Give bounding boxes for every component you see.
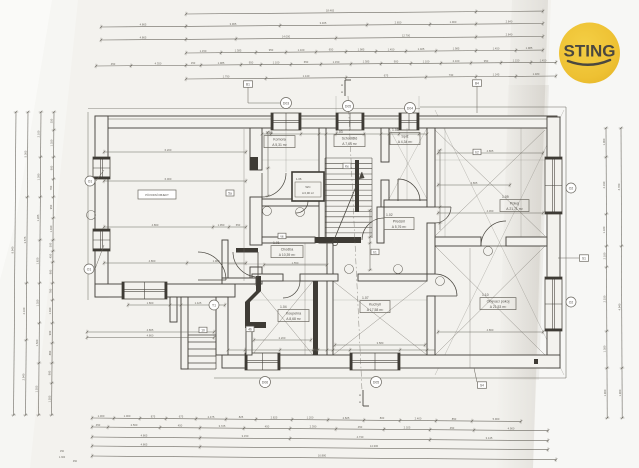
tag b2 pokoj bbox=[473, 149, 481, 155]
svg-text:A 21,53 m²: A 21,53 m² bbox=[490, 305, 507, 309]
svg-text:D06: D06 bbox=[262, 381, 268, 385]
roof outline right of plan bbox=[565, 107, 567, 378]
wall V3 lower bbox=[377, 207, 384, 243]
right dimension line 2 bbox=[621, 128, 622, 418]
svg-text:1.030: 1.030 bbox=[49, 225, 53, 232]
svg-text:450: 450 bbox=[73, 460, 78, 463]
bottom marker circle D06 bbox=[260, 377, 271, 388]
roof outline above top wall bbox=[88, 108, 420, 110]
svg-text:A: A bbox=[341, 90, 343, 94]
fold shadow band mid bbox=[498, 85, 549, 380]
svg-text:2.025: 2.025 bbox=[404, 425, 411, 429]
svg-text:A 21,71 m²: A 21,71 m² bbox=[506, 207, 523, 211]
wall V4 upper bbox=[427, 128, 435, 207]
svg-text:900: 900 bbox=[48, 330, 52, 335]
svg-text:450: 450 bbox=[358, 425, 363, 429]
svg-text:2.940: 2.940 bbox=[22, 373, 26, 380]
diagonal spiz bbox=[389, 128, 427, 199]
interior ticks under top wall bbox=[262, 133, 427, 135]
vestibule south wall bbox=[222, 278, 256, 284]
svg-text:D05: D05 bbox=[345, 105, 351, 109]
svg-text:2.840: 2.840 bbox=[506, 20, 513, 24]
svg-text:4.865: 4.865 bbox=[147, 328, 154, 332]
svg-text:1.380: 1.380 bbox=[603, 345, 607, 352]
interior dim big room line 4 bbox=[104, 262, 246, 264]
wall V4 lower bbox=[427, 296, 435, 355]
svg-text:2.400: 2.400 bbox=[415, 417, 422, 421]
paper top-left white corner bbox=[0, 0, 52, 280]
vertical line through obyvaci bbox=[469, 248, 471, 368]
interior dim obyvaci bbox=[438, 331, 543, 333]
svg-text:A 8,68 m²: A 8,68 m² bbox=[286, 317, 301, 321]
svg-text:3.580: 3.580 bbox=[377, 341, 384, 345]
entrance door bbox=[233, 252, 258, 277]
window main bottom wall 2 bbox=[350, 353, 400, 370]
svg-text:2.200: 2.200 bbox=[279, 336, 286, 340]
top marker circle D03 bbox=[281, 98, 292, 109]
svg-text:900: 900 bbox=[49, 165, 53, 170]
svg-text:760: 760 bbox=[48, 288, 52, 293]
svg-text:S4: S4 bbox=[480, 384, 484, 388]
bottom tag box S4 bbox=[478, 382, 487, 389]
top tag box B4 bbox=[473, 80, 482, 87]
wall V3 stairs/spiz bbox=[381, 128, 389, 162]
interior dim chodba bbox=[264, 264, 327, 266]
door pokoj (V4) bbox=[435, 207, 451, 223]
svg-text:150: 150 bbox=[60, 450, 65, 453]
porch wall A bbox=[170, 297, 177, 322]
wall H2 stub bbox=[381, 237, 384, 243]
interior vertical dim komora bbox=[267, 132, 269, 196]
svg-text:1.300: 1.300 bbox=[98, 414, 105, 418]
diagonal pokoj bbox=[435, 130, 545, 236]
svg-text:1.245: 1.245 bbox=[493, 72, 500, 76]
interior dim kuchyn bbox=[335, 344, 425, 346]
top marker circle D04 bbox=[405, 103, 416, 114]
svg-text:STING: STING bbox=[564, 42, 616, 61]
diagonal obyvaci pokoj bbox=[435, 246, 545, 355]
svg-text:B1: B1 bbox=[246, 83, 250, 87]
svg-text:2.560: 2.560 bbox=[131, 423, 138, 427]
svg-text:4.780: 4.780 bbox=[617, 183, 621, 190]
svg-text:1.100: 1.100 bbox=[423, 59, 430, 63]
porch wall B bbox=[181, 297, 188, 369]
STING logo circle bbox=[559, 23, 620, 84]
bottom dimension line 1 bbox=[92, 418, 521, 421]
svg-text:1.800: 1.800 bbox=[147, 301, 154, 305]
right tag box S1 bbox=[580, 255, 589, 261]
svg-text:450: 450 bbox=[178, 424, 183, 428]
svg-text:2.100: 2.100 bbox=[37, 130, 41, 137]
svg-text:O2: O2 bbox=[569, 301, 574, 305]
svg-text:3.465: 3.465 bbox=[320, 21, 327, 25]
svg-text:Předsíň: Předsíň bbox=[393, 220, 405, 224]
svg-text:1.04: 1.04 bbox=[280, 305, 287, 309]
window main bottom wall 1 bbox=[245, 353, 280, 370]
left dimension line 3 bbox=[39, 112, 41, 415]
paper right side lighter bbox=[533, 0, 639, 468]
interior dim big room line 1 bbox=[104, 151, 246, 153]
svg-text:Kuchyň: Kuchyň bbox=[369, 303, 381, 307]
wall H2 under stairs left bbox=[262, 237, 315, 243]
svg-text:1.10: 1.10 bbox=[482, 293, 489, 297]
right window bubble 1 bbox=[566, 183, 576, 193]
svg-text:875: 875 bbox=[151, 414, 156, 418]
svg-text:1.285: 1.285 bbox=[36, 214, 40, 221]
section line A-A bbox=[348, 96, 362, 390]
interior dim pokoj bbox=[438, 212, 543, 214]
svg-text:1.555: 1.555 bbox=[48, 395, 52, 402]
svg-text:D03: D03 bbox=[283, 102, 289, 106]
wall H4 right part bbox=[506, 237, 547, 246]
svg-text:6.000: 6.000 bbox=[165, 177, 172, 181]
svg-text:1.900: 1.900 bbox=[618, 389, 622, 396]
svg-text:S1: S1 bbox=[582, 257, 586, 261]
svg-text:1.985: 1.985 bbox=[526, 46, 533, 50]
svg-text:Schodiště: Schodiště bbox=[342, 137, 358, 141]
svg-text:1.385: 1.385 bbox=[363, 60, 370, 64]
interior horizontal line y264 bbox=[228, 263, 327, 265]
svg-text:O2: O2 bbox=[569, 187, 574, 191]
WC enclosure bbox=[292, 172, 324, 201]
top tag box B1 bbox=[244, 81, 253, 88]
window top wall 1 bbox=[271, 113, 301, 130]
svg-text:350: 350 bbox=[50, 118, 54, 123]
svg-text:8.940: 8.940 bbox=[11, 246, 15, 253]
entrance wall bar bbox=[236, 248, 258, 253]
svg-text:4.360: 4.360 bbox=[487, 209, 494, 213]
svg-text:1.450: 1.450 bbox=[388, 47, 395, 51]
connector wall left of main bottom bbox=[216, 297, 228, 355]
svg-text:12.700: 12.700 bbox=[402, 34, 411, 38]
svg-text:1.06: 1.06 bbox=[296, 177, 302, 181]
svg-text:900: 900 bbox=[48, 370, 52, 375]
svg-text:4.860: 4.860 bbox=[487, 328, 494, 332]
staircase start circle bbox=[332, 240, 337, 245]
wall H6 predsin/koupelna-kuchyn bbox=[252, 274, 283, 281]
interior vertical dim predsin bbox=[369, 210, 371, 270]
svg-text:2.475: 2.475 bbox=[208, 415, 215, 419]
wall kuchyn west bbox=[327, 281, 333, 355]
svg-text:A 7,64 m²: A 7,64 m² bbox=[342, 142, 357, 146]
vent block bottom wall bbox=[534, 359, 538, 364]
svg-text:4.900: 4.900 bbox=[508, 426, 515, 430]
svg-text:D05: D05 bbox=[373, 381, 379, 385]
porch bubble bbox=[209, 300, 219, 310]
svg-text:3.965: 3.965 bbox=[230, 22, 237, 26]
svg-text:A 0,90 m²: A 0,90 m² bbox=[302, 191, 314, 195]
svg-text:4.865: 4.865 bbox=[471, 181, 478, 185]
svg-text:150: 150 bbox=[191, 61, 196, 65]
faint vertical construction lines bbox=[285, 128, 287, 172]
svg-text:Koupelna: Koupelna bbox=[286, 312, 301, 316]
svg-text:1.450: 1.450 bbox=[493, 46, 500, 50]
diagonal right wing roof bbox=[435, 110, 564, 375]
svg-text:1.03: 1.03 bbox=[336, 130, 343, 134]
window right wall 2 bbox=[545, 277, 562, 331]
svg-text:10: 10 bbox=[201, 329, 205, 333]
svg-text:650: 650 bbox=[236, 223, 241, 227]
tag ke stairs bbox=[343, 163, 351, 169]
bottom dimension line 4 bbox=[92, 446, 548, 450]
dim pair below left building 2 bbox=[87, 337, 214, 339]
svg-text:4.860: 4.860 bbox=[147, 333, 154, 337]
svg-text:1.620: 1.620 bbox=[36, 257, 40, 264]
vestibule left wall bbox=[222, 240, 228, 278]
svg-text:450: 450 bbox=[96, 423, 101, 427]
bottom dimension line 2 bbox=[92, 427, 548, 431]
svg-text:2.840: 2.840 bbox=[506, 33, 513, 37]
exterior main bottom wall bbox=[222, 355, 560, 368]
window top wall 3 bbox=[399, 113, 419, 130]
top dimension line 1 (18.465 overall) bbox=[186, 11, 543, 14]
door pokoj (H4) bbox=[481, 221, 506, 246]
svg-text:4.940: 4.940 bbox=[618, 303, 622, 310]
exterior right wall bbox=[547, 117, 560, 368]
door spiz bbox=[398, 179, 420, 201]
svg-text:4.860: 4.860 bbox=[149, 259, 156, 263]
left window bubble 2 bbox=[84, 264, 94, 274]
interior dim koupelna bbox=[254, 339, 311, 341]
svg-text:1.200: 1.200 bbox=[307, 416, 314, 420]
window right wall 1 bbox=[545, 157, 562, 214]
svg-text:950: 950 bbox=[269, 48, 274, 52]
svg-text:3.725: 3.725 bbox=[219, 424, 226, 428]
svg-text:1.140: 1.140 bbox=[303, 74, 310, 78]
tag 10 porch bbox=[199, 327, 207, 333]
svg-text:Spíž: Spíž bbox=[401, 135, 408, 139]
left dimension line 4 bbox=[52, 112, 54, 415]
svg-text:450: 450 bbox=[450, 426, 455, 430]
svg-text:1.000: 1.000 bbox=[124, 414, 131, 418]
wall V4 middle bbox=[427, 223, 435, 274]
right window bubble 2 bbox=[566, 297, 576, 307]
svg-text:1.480: 1.480 bbox=[533, 72, 540, 76]
svg-text:2.650: 2.650 bbox=[395, 21, 402, 25]
roof outline below plan bbox=[214, 377, 566, 379]
koupelna west wall jog bbox=[256, 276, 261, 291]
svg-text:O1: O1 bbox=[88, 180, 93, 184]
svg-text:3.575: 3.575 bbox=[23, 236, 27, 243]
door koupelna bbox=[283, 281, 300, 298]
svg-text:675: 675 bbox=[179, 415, 184, 419]
wall H1 under komora bbox=[262, 199, 319, 206]
window top wall 2 bbox=[336, 113, 364, 130]
svg-text:850: 850 bbox=[452, 417, 457, 421]
exterior stairs bbox=[188, 368, 216, 370]
svg-text:1.950: 1.950 bbox=[218, 223, 225, 227]
svg-text:B4: B4 bbox=[475, 82, 479, 86]
svg-text:2.190: 2.190 bbox=[602, 181, 606, 188]
right dimension line 1 bbox=[606, 128, 607, 418]
interior vertical line chodba axis bbox=[304, 243, 306, 355]
section mark A-A bottom bbox=[362, 390, 364, 406]
svg-text:1.985: 1.985 bbox=[453, 47, 460, 51]
svg-text:5.900: 5.900 bbox=[493, 417, 500, 421]
interior ticks above bottom wall bbox=[228, 349, 435, 351]
svg-text:2.530: 2.530 bbox=[603, 295, 607, 302]
door circles bbox=[263, 207, 272, 216]
svg-text:1.100: 1.100 bbox=[298, 48, 305, 52]
top dimension line 3 bbox=[101, 37, 543, 41]
svg-text:Ke: Ke bbox=[345, 165, 349, 169]
svg-text:1.025: 1.025 bbox=[418, 47, 425, 51]
svg-text:950: 950 bbox=[249, 61, 254, 65]
svg-text:Pokoj: Pokoj bbox=[510, 202, 519, 206]
svg-text:14.300: 14.300 bbox=[370, 444, 379, 448]
svg-text:Chodba: Chodba bbox=[281, 248, 294, 252]
svg-text:2.100: 2.100 bbox=[453, 59, 460, 63]
wall V2 komora/schodiste bbox=[319, 128, 326, 243]
svg-text:b2: b2 bbox=[475, 151, 479, 155]
svg-text:6.200: 6.200 bbox=[165, 148, 172, 152]
svg-text:1.500: 1.500 bbox=[35, 339, 39, 346]
svg-text:1.02: 1.02 bbox=[386, 213, 393, 217]
svg-text:16.880: 16.880 bbox=[318, 454, 327, 458]
svg-text:Obývací pokoj: Obývací pokoj bbox=[487, 300, 510, 304]
svg-text:1.985: 1.985 bbox=[358, 48, 365, 52]
svg-text:5a: 5a bbox=[228, 192, 232, 196]
diagonal kuchyn bbox=[333, 281, 427, 355]
svg-text:4.730: 4.730 bbox=[357, 435, 364, 439]
interior dim big room line 3 bbox=[104, 226, 246, 228]
roof outline above right wing bbox=[420, 106, 566, 108]
svg-text:1.550: 1.550 bbox=[292, 261, 299, 265]
exterior bottom wall of original building bbox=[95, 284, 235, 297]
svg-text:760: 760 bbox=[49, 185, 53, 190]
svg-text:1.01: 1.01 bbox=[273, 241, 280, 245]
staircase steps bbox=[325, 157, 372, 159]
svg-text:4.865: 4.865 bbox=[141, 442, 148, 446]
svg-text:2.180: 2.180 bbox=[602, 252, 606, 259]
top marker circle D05 bbox=[343, 101, 354, 112]
door schodiste bbox=[362, 218, 384, 240]
left dimension line 2 bbox=[26, 112, 28, 415]
left window bubble 1 bbox=[85, 176, 95, 186]
wall V1 lower bbox=[250, 267, 262, 284]
top dimension line 2 bbox=[101, 24, 543, 28]
door kuchyn/obyvaci (V4) bbox=[435, 274, 457, 296]
svg-text:950: 950 bbox=[484, 59, 489, 63]
wall V2b chodba/predsin bbox=[327, 243, 333, 274]
svg-text:1.100: 1.100 bbox=[273, 61, 280, 65]
svg-text:4b: 4b bbox=[248, 328, 252, 332]
svg-text:1.180: 1.180 bbox=[602, 226, 606, 233]
tag 4b koupelna bbox=[246, 326, 254, 332]
svg-text:4.865: 4.865 bbox=[140, 36, 147, 40]
svg-text:900: 900 bbox=[49, 269, 53, 274]
svg-text:2.825: 2.825 bbox=[343, 416, 350, 420]
svg-text:1.150: 1.150 bbox=[200, 49, 207, 53]
wall V1 mid bbox=[250, 197, 262, 245]
svg-text:1.900: 1.900 bbox=[603, 389, 607, 396]
svg-text:4.865: 4.865 bbox=[140, 23, 147, 27]
svg-text:825: 825 bbox=[239, 415, 244, 419]
svg-text:4.860: 4.860 bbox=[152, 223, 159, 227]
wall H3 under spiz bbox=[384, 200, 427, 207]
svg-text:860: 860 bbox=[48, 350, 52, 355]
window left wall 1 bbox=[93, 157, 110, 179]
svg-text:ve: ve bbox=[280, 235, 284, 239]
svg-text:WC: WC bbox=[305, 185, 311, 189]
svg-text:1.555: 1.555 bbox=[35, 385, 39, 392]
svg-text:1.350: 1.350 bbox=[50, 139, 54, 146]
interior dim big room line 2 bbox=[104, 180, 246, 182]
svg-text:1.385: 1.385 bbox=[235, 49, 242, 53]
outline left of left wall bbox=[87, 112, 89, 300]
svg-text:3.145: 3.145 bbox=[486, 436, 493, 440]
svg-text:5.365: 5.365 bbox=[24, 150, 28, 157]
svg-text:675: 675 bbox=[384, 73, 389, 77]
section mark A-A top bbox=[344, 80, 346, 96]
svg-text:D04: D04 bbox=[407, 107, 413, 111]
svg-text:A: A bbox=[359, 393, 361, 397]
svg-text:1.900: 1.900 bbox=[450, 20, 457, 24]
svg-text:1.030: 1.030 bbox=[48, 307, 52, 314]
svg-text:1.150: 1.150 bbox=[333, 60, 340, 64]
svg-text:1.300: 1.300 bbox=[59, 456, 66, 459]
tag b1 predsin bbox=[371, 249, 379, 255]
top dimension line 6 bbox=[186, 76, 556, 79]
svg-text:4.865: 4.865 bbox=[487, 149, 494, 153]
paper left bright edge bbox=[0, 0, 78, 468]
svg-text:1.150: 1.150 bbox=[513, 59, 520, 63]
svg-text:1.450: 1.450 bbox=[540, 58, 547, 62]
svg-text:T1: T1 bbox=[212, 304, 216, 308]
svg-text:450: 450 bbox=[111, 62, 116, 66]
svg-text:A: A bbox=[359, 400, 361, 404]
wall H4 pokoj/obyvaci left part bbox=[435, 237, 481, 246]
window left wall 2 bbox=[93, 229, 110, 251]
door WC bbox=[296, 201, 308, 213]
svg-text:A 17,58 m²: A 17,58 m² bbox=[367, 308, 384, 312]
svg-text:900: 900 bbox=[394, 60, 399, 64]
svg-text:500: 500 bbox=[49, 242, 53, 247]
svg-text:800: 800 bbox=[380, 416, 385, 420]
diagonal koupelna bbox=[252, 281, 313, 355]
exterior left wall bbox=[95, 116, 108, 297]
interior dim pokoj mid bbox=[438, 184, 510, 186]
svg-text:A: A bbox=[341, 83, 343, 87]
staircase arrow bbox=[334, 172, 362, 240]
tag 5a in big room bbox=[226, 190, 234, 196]
dim line across porch bbox=[128, 304, 225, 306]
exterior top wall bbox=[95, 116, 557, 128]
svg-text:1.060: 1.060 bbox=[602, 138, 606, 145]
top dimension line 5 bbox=[96, 62, 556, 66]
svg-text:1.390: 1.390 bbox=[36, 173, 40, 180]
svg-text:650: 650 bbox=[304, 60, 309, 64]
interior vertical line big room bbox=[243, 129, 245, 281]
svg-text:Komora: Komora bbox=[273, 138, 286, 142]
door komora (V1) bbox=[262, 173, 286, 197]
svg-text:1.350: 1.350 bbox=[35, 299, 39, 306]
svg-text:1.425: 1.425 bbox=[195, 301, 202, 305]
svg-text:A 5,76 m²: A 5,76 m² bbox=[392, 225, 407, 229]
svg-text:2.100: 2.100 bbox=[22, 307, 26, 314]
svg-text:14.000: 14.000 bbox=[282, 34, 291, 38]
svg-text:1.05: 1.05 bbox=[266, 131, 273, 135]
interior vertical dim left of V4 bbox=[439, 150, 441, 230]
svg-text:A 4,34 m²: A 4,34 m² bbox=[398, 140, 413, 144]
svg-text:450: 450 bbox=[265, 424, 270, 428]
top dimension line 4 bbox=[186, 50, 543, 53]
porch door bbox=[198, 252, 226, 280]
svg-text:O1: O1 bbox=[87, 268, 92, 272]
STING logo smile bbox=[568, 60, 610, 65]
svg-text:18.465: 18.465 bbox=[326, 9, 335, 13]
wall V5 shaft koupelna/kuchyn bbox=[313, 281, 318, 355]
